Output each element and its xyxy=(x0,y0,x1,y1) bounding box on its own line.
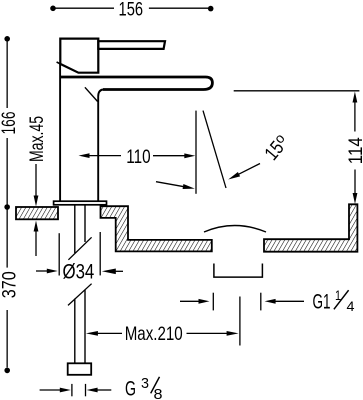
supply pipe right upper segment xyxy=(84,205,86,242)
15 degree left arrow xyxy=(156,182,184,187)
dimension O34 left arrow xyxy=(36,270,48,272)
svg-text:4: 4 xyxy=(347,298,355,314)
dimension 166 bottom dot xyxy=(4,204,10,210)
countertop left slab xyxy=(16,207,58,219)
svg-text:G1: G1 xyxy=(313,290,331,313)
dimension 110 extension line xyxy=(195,111,197,194)
dimension O34 left extension line xyxy=(58,233,60,275)
dimension 156 line xyxy=(56,7,209,9)
dimension G1 1/4 left tick xyxy=(212,293,214,311)
faucet body right edge with fillet xyxy=(98,90,103,202)
faucet lever xyxy=(98,41,165,49)
dimension G1 1/4 left arrow xyxy=(180,300,199,302)
dimension Max.210 right arrow xyxy=(187,332,228,334)
dimension G3/8 right tick xyxy=(85,384,87,396)
svg-text:156: 156 xyxy=(119,0,144,20)
supply pipe left lower segment xyxy=(74,299,76,364)
faucet aerator diagonal mark xyxy=(85,87,98,101)
dimension 156 left dot xyxy=(50,6,56,12)
dimension 114 down arrow xyxy=(354,170,356,194)
pipe break slash lower xyxy=(68,284,92,306)
dimension 166 line xyxy=(6,42,8,205)
dimension 156 right dot xyxy=(208,6,214,12)
dimension 110 left arrow xyxy=(79,153,90,158)
svg-text:G: G xyxy=(125,377,136,400)
dimension 370 bottom dot xyxy=(4,368,10,374)
dimension G3/8 left tick xyxy=(71,384,73,396)
countertop middle step section xyxy=(101,206,212,251)
dimension 110 right arrow xyxy=(153,155,185,157)
dimension 114 extension line xyxy=(234,90,360,92)
svg-text:8: 8 xyxy=(154,386,163,400)
supply pipe right lower segment xyxy=(84,290,86,363)
dimension O34 right extension line xyxy=(99,232,101,275)
faucet handle body xyxy=(60,39,98,73)
dimension G3/8 right arrow xyxy=(87,388,98,393)
supply pipe left upper segment xyxy=(74,205,76,253)
countertop right section xyxy=(264,204,357,251)
faucet body left edge xyxy=(59,64,61,202)
dimension O34 right arrow xyxy=(102,269,116,275)
handle chamfer overshoot xyxy=(57,62,62,65)
svg-text:114: 114 xyxy=(345,137,363,164)
svg-text:3: 3 xyxy=(141,375,149,392)
svg-text:Ø34: Ø34 xyxy=(63,260,95,283)
15 degree slanted line xyxy=(203,111,226,188)
faucet spout outline xyxy=(60,77,213,90)
supply hose nut xyxy=(68,363,92,375)
svg-text:110: 110 xyxy=(126,146,150,168)
svg-text:370: 370 xyxy=(0,271,20,298)
dimension Max.45 down arrow xyxy=(35,164,37,198)
dimension G1 1/4 right tick xyxy=(260,293,262,311)
dimension 166 top dot xyxy=(4,36,10,42)
dimension 370 line xyxy=(6,210,8,368)
dimension G1 1/4 right arrow xyxy=(265,299,276,304)
drain tailpiece xyxy=(214,264,263,278)
basin bottom arc xyxy=(204,226,266,233)
drain centerline tick xyxy=(239,297,241,346)
svg-text:Max.210: Max.210 xyxy=(125,323,183,345)
15 degree right leader arrow xyxy=(239,164,261,175)
svg-text:Max.45: Max.45 xyxy=(26,116,48,162)
svg-text:166: 166 xyxy=(0,112,20,135)
pipe break slash upper xyxy=(68,237,91,259)
dimension 114 up arrow xyxy=(353,92,358,103)
faucet base flange xyxy=(54,201,107,205)
dimension G3/8 left arrow xyxy=(40,389,60,391)
dimension Max.210 left arrow xyxy=(86,331,98,336)
dimension Max.45 up arrow xyxy=(35,229,37,256)
